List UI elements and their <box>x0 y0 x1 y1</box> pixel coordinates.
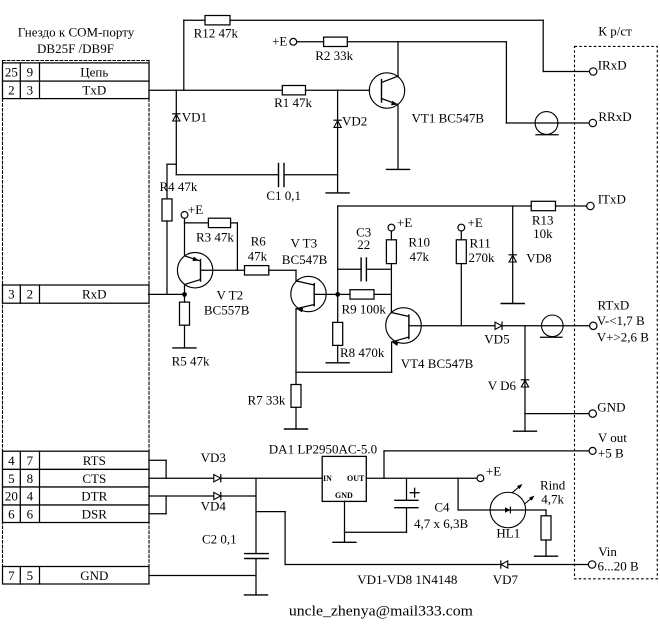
svg-text:TxD: TxD <box>82 82 106 97</box>
svg-text:6: 6 <box>8 506 15 521</box>
svg-text:V T3: V T3 <box>291 235 318 250</box>
wire +E down to VT2 emitter <box>184 218 186 256</box>
power +E for R11 <box>458 215 483 231</box>
resistor R5 <box>180 302 190 325</box>
svg-text:V T2: V T2 <box>217 288 244 303</box>
wire VT3 emitter down <box>295 309 297 373</box>
svg-text:2: 2 <box>8 82 15 97</box>
wire VT4 base <box>409 325 495 327</box>
svg-text:R8 470k: R8 470k <box>340 345 385 360</box>
svg-text:47k: 47k <box>248 249 268 264</box>
diode VD5 <box>495 322 502 329</box>
wire R13 to ITxD <box>556 205 587 207</box>
wire TxD from table <box>149 89 282 91</box>
svg-text:10k: 10k <box>533 226 553 241</box>
wire down to VT3 collector <box>295 270 297 281</box>
svg-text:V D6: V D6 <box>488 378 517 393</box>
svg-text:8: 8 <box>27 471 34 486</box>
svg-text:CTS: CTS <box>82 471 106 486</box>
capacitor C2 <box>245 554 268 559</box>
svg-text:6: 6 <box>27 506 34 521</box>
svg-text:IN: IN <box>323 474 332 483</box>
wire ITxD horizontal <box>338 205 532 207</box>
wire R12 right to corner <box>230 19 543 21</box>
wire R9 left <box>338 293 350 295</box>
svg-text:IRxD: IRxD <box>598 58 627 73</box>
connector row DTR pins 20/4 <box>3 487 150 505</box>
svg-text:RRxD: RRxD <box>598 109 631 124</box>
connector row RxD pins 3/2 <box>3 285 150 303</box>
diode VD1 <box>173 114 180 121</box>
wire GND out <box>525 413 589 415</box>
svg-text:4: 4 <box>27 489 34 504</box>
junction RxD node <box>182 292 187 297</box>
svg-text:uncle_zhenya@mail333.com: uncle_zhenya@mail333.com <box>289 604 473 620</box>
resistor R4 <box>162 199 172 221</box>
wire R8 bottom <box>337 345 339 362</box>
connector row RTS pins 4/7 <box>3 451 150 469</box>
wire VD7 to Vin <box>508 564 589 566</box>
svg-text:GND: GND <box>80 568 108 583</box>
svg-text:R3 47k: R3 47k <box>196 230 234 245</box>
svg-text:VD2: VD2 <box>342 114 367 129</box>
svg-text:7: 7 <box>8 568 15 583</box>
capacitor C4 electrolytic <box>395 500 418 507</box>
wire GND row <box>149 575 256 577</box>
resistor R1 <box>282 86 305 95</box>
wire +E to R11 <box>460 231 462 240</box>
resistor R11 <box>456 240 466 264</box>
svg-text:+E: +E <box>468 215 483 230</box>
wire R4 top <box>166 164 168 199</box>
diode VD4 <box>214 492 221 499</box>
wire Vin left <box>285 564 501 566</box>
ground R8 <box>326 362 349 364</box>
svg-text:VT4 BC547B: VT4 BC547B <box>401 356 474 371</box>
power +E main <box>477 464 501 482</box>
wire R12 left <box>184 19 205 21</box>
terminal GND <box>589 410 596 417</box>
svg-text:К р/ст: К р/ст <box>598 23 632 38</box>
svg-text:V+>2,6 В: V+>2,6 В <box>597 330 650 345</box>
diode VD2 <box>334 120 341 127</box>
svg-text:Гнездо к COM-порту: Гнездо к COM-порту <box>18 24 135 39</box>
jack symbol on RRxD line <box>535 112 558 135</box>
wire R6 right <box>269 269 296 271</box>
ground VT1 emitter <box>387 168 410 170</box>
junction VT3 base node <box>335 292 340 297</box>
svg-text:RxD: RxD <box>82 287 107 302</box>
voltage regulator DA1 LP2950AC-5.0 <box>322 456 366 501</box>
wire C4 bottom <box>406 508 408 533</box>
svg-text:VT1 BC547B: VT1 BC547B <box>412 110 485 125</box>
terminal RTxD <box>590 322 597 329</box>
svg-text:Vin: Vin <box>598 544 617 559</box>
svg-text:VD4: VD4 <box>201 498 227 513</box>
resistor R13 <box>531 201 555 210</box>
connector row GND pins 7/5 <box>3 567 150 585</box>
svg-text:DA1 LP2950AC-5.0: DA1 LP2950AC-5.0 <box>269 442 377 457</box>
svg-text:5: 5 <box>8 471 15 486</box>
wire VT3 emitter to R7 <box>295 372 297 384</box>
resistor R10 <box>386 240 396 264</box>
wire R12 left vertical to TxD node <box>183 20 185 90</box>
resistor R2 <box>324 37 348 46</box>
wire HL1 branch vertical <box>457 478 459 510</box>
power +E for R3/VT2 <box>181 202 203 218</box>
svg-text:OUT: OUT <box>347 474 365 483</box>
svg-text:C1 0,1: C1 0,1 <box>266 188 301 203</box>
resistor Rind <box>541 516 551 540</box>
wire to HL1 <box>458 509 490 511</box>
svg-text:+E: +E <box>397 215 412 230</box>
resistor R9 <box>350 290 374 299</box>
connector row CTS pins 5/8 <box>3 469 150 487</box>
wire jack to RTxD <box>563 325 590 327</box>
svg-text:20: 20 <box>5 489 18 504</box>
ground VD8 <box>501 303 524 305</box>
svg-text:VD5: VD5 <box>484 331 509 346</box>
svg-text:R2 33k: R2 33k <box>315 48 353 63</box>
svg-text:VD7: VD7 <box>493 572 519 587</box>
wire VD3 to DA1 IN <box>221 477 322 479</box>
svg-text:R10: R10 <box>408 235 430 250</box>
svg-text:2: 2 <box>27 287 34 302</box>
connector DB25F/DB9F dashed outline <box>3 61 150 567</box>
wire C4 top <box>406 478 408 500</box>
wire IRxD horizontal <box>543 71 589 73</box>
svg-text:ITxD: ITxD <box>598 192 626 207</box>
svg-text:VD3: VD3 <box>201 450 226 465</box>
wire Vin branch vertical <box>284 512 286 565</box>
svg-text:25: 25 <box>5 65 18 80</box>
wire Vout horizontal <box>384 450 589 452</box>
svg-text:V-<1,7 В: V-<1,7 В <box>597 313 645 328</box>
resistor R7 <box>291 385 301 408</box>
svg-text:7: 7 <box>27 453 34 468</box>
svg-text:R7 33k: R7 33k <box>248 393 286 408</box>
svg-text:R9 100k: R9 100k <box>342 301 387 316</box>
ground R5 <box>173 347 196 349</box>
terminal Vin <box>588 561 595 568</box>
svg-text:V out: V out <box>598 430 627 445</box>
resistor R8 <box>333 322 343 345</box>
svg-text:4,7k: 4,7k <box>541 492 564 507</box>
wire RRxD horizontal b <box>558 122 589 124</box>
wire node to Vin branch <box>256 511 285 513</box>
svg-text:R6: R6 <box>251 234 267 249</box>
wire RRxD vertical <box>505 42 507 123</box>
svg-text:R4 47k: R4 47k <box>160 179 198 194</box>
wire R9 right <box>374 293 391 295</box>
terminal RRxD <box>589 119 596 126</box>
wire R4 bottom to RxD node <box>166 221 168 294</box>
wire R7 bottom <box>295 407 297 429</box>
diode VD3 <box>214 475 221 482</box>
wire R10 down to VT4 collector <box>390 264 392 313</box>
svg-text:3: 3 <box>8 287 15 302</box>
wire VD2 branch vertical <box>337 90 339 193</box>
wire C1 left <box>176 174 278 176</box>
wire C1 right <box>284 174 338 176</box>
wire jog to R4 <box>167 163 176 165</box>
wire IRxD vertical <box>542 20 544 71</box>
wire VD5 to jack <box>502 325 542 327</box>
wire C3 left <box>338 268 361 270</box>
svg-text:3: 3 <box>27 82 34 97</box>
ground DA1 <box>333 541 356 543</box>
wire VT1 emitter down <box>397 105 399 170</box>
wire VT2 collector down <box>184 285 186 295</box>
wire emitters joined <box>296 371 392 373</box>
ground Rind <box>535 555 558 557</box>
wire DA1 OUT <box>366 477 477 479</box>
svg-text:Цепь: Цепь <box>80 65 108 80</box>
diode VD8 <box>509 255 516 262</box>
svg-text:VD1: VD1 <box>182 110 207 125</box>
wire VT2 base to R6 <box>201 269 245 271</box>
wire +E to R10 <box>390 231 392 240</box>
svg-text:RTS: RTS <box>83 453 106 468</box>
svg-text:+E: +E <box>272 34 287 49</box>
ground VD6 <box>514 430 537 432</box>
terminal IRxD <box>590 68 597 75</box>
wire RRxD horizontal a <box>506 122 535 124</box>
wire RTS-CTS bracket <box>165 460 167 478</box>
ground C2 <box>245 594 268 596</box>
wire C3 right <box>366 268 391 270</box>
svg-text:GND: GND <box>335 491 353 500</box>
power +E for R10 <box>388 215 412 231</box>
wire to R5 <box>184 294 186 302</box>
wire VT1 collector up <box>397 42 399 77</box>
svg-text:BC547B: BC547B <box>282 252 328 267</box>
svg-text:GND: GND <box>597 399 625 414</box>
connector row DSR pins 6/6 <box>3 505 150 523</box>
wire VT3 base <box>314 293 338 295</box>
plus mark of C4 <box>410 488 419 497</box>
svg-text:9: 9 <box>27 65 34 80</box>
wire DTR to VD4 <box>149 495 214 497</box>
wire R11 down <box>460 264 462 326</box>
wire VD1 branch vertical <box>175 90 177 175</box>
wire R8 top <box>337 294 339 322</box>
svg-text:DB25F /DB9F: DB25F /DB9F <box>37 41 114 56</box>
resistor R6 <box>245 266 269 275</box>
svg-text:BC557B: BC557B <box>204 303 250 318</box>
wire RTS stub <box>149 459 166 461</box>
connector row TxD pins 2/3 <box>3 81 150 99</box>
ground R7 <box>285 428 308 430</box>
wire ITxD vertical <box>337 206 339 294</box>
transistor VT1 BC547B <box>369 73 404 108</box>
wire C4 to DA1 gnd <box>345 531 407 533</box>
svg-text:DTR: DTR <box>81 489 107 504</box>
svg-text:+E: +E <box>188 202 203 217</box>
svg-text:HL1: HL1 <box>496 526 520 541</box>
wire HL1 to Rind <box>526 509 546 511</box>
resistor R3 <box>208 218 230 227</box>
wire DA1 GND pin <box>344 501 346 542</box>
transistor VT4 BC547B <box>386 308 422 346</box>
resistor R12 <box>205 16 230 25</box>
svg-text:5: 5 <box>27 568 34 583</box>
wire R3 down to base wire <box>236 223 238 270</box>
wire DSR-DTR bracket <box>165 496 167 514</box>
wire +E to R2 <box>297 41 324 43</box>
terminal Vout <box>589 447 596 454</box>
wire Rind top <box>545 510 547 516</box>
svg-text:270k: 270k <box>469 250 496 265</box>
capacitor C1 <box>279 164 285 187</box>
wire R2 right <box>347 41 506 43</box>
LED HL1 <box>490 484 534 528</box>
ground VD2 <box>326 192 349 194</box>
svg-text:C4: C4 <box>434 500 450 515</box>
svg-text:R12 47k: R12 47k <box>194 26 239 41</box>
wire RxD from table <box>149 293 185 295</box>
wire CTS to VD3 <box>149 477 214 479</box>
diode VD6 <box>521 380 528 387</box>
svg-text:4: 4 <box>8 453 15 468</box>
svg-text:4,7 x 6,3В: 4,7 x 6,3В <box>414 516 469 531</box>
jack symbol on RTxD line <box>541 315 564 337</box>
wire R1 to VT1 base <box>306 89 370 91</box>
svg-text:RTxD: RTxD <box>598 298 630 313</box>
svg-text:+E: +E <box>486 464 501 479</box>
capacitor C3 <box>361 258 366 281</box>
wire VT4 emitter down <box>391 342 393 372</box>
svg-text:R11: R11 <box>470 236 491 251</box>
svg-text:VD1-VD8 1N4148: VD1-VD8 1N4148 <box>357 572 457 587</box>
transistor VT2 BC557B <box>177 253 212 288</box>
radio connector dashed box <box>575 46 658 578</box>
wire R3 right <box>231 222 238 224</box>
svg-text:47k: 47k <box>410 249 430 264</box>
wire VD4 to node <box>221 495 256 497</box>
svg-text:R1 47k: R1 47k <box>274 95 312 110</box>
svg-text:+5 В: +5 В <box>598 446 624 461</box>
svg-text:R5 47k: R5 47k <box>172 353 210 368</box>
wire Vout vertical <box>383 451 385 478</box>
svg-text:VD8: VD8 <box>526 251 551 266</box>
svg-text:DSR: DSR <box>82 506 108 521</box>
terminal ITxD <box>587 202 594 209</box>
wire R5 bottom <box>184 325 186 348</box>
svg-text:C2 0,1: C2 0,1 <box>202 532 237 547</box>
wire VD8 branch <box>512 206 514 304</box>
connector row Цепь pins 25/9 <box>3 63 150 81</box>
svg-text:6...20 В: 6...20 В <box>598 558 640 573</box>
wire C2 node vertical <box>255 478 257 553</box>
power +E for R2 <box>272 34 297 49</box>
transistor VT3 BC547B <box>291 276 326 312</box>
wire DSR stub <box>149 513 166 515</box>
wire R3 left <box>185 222 209 224</box>
wire C2 bottom <box>255 559 257 595</box>
wire VD6 branch <box>524 326 526 431</box>
diode VD7 <box>501 561 508 568</box>
wire Rind bottom <box>545 540 547 556</box>
svg-text:Rind: Rind <box>540 477 566 492</box>
svg-text:22: 22 <box>357 237 370 252</box>
